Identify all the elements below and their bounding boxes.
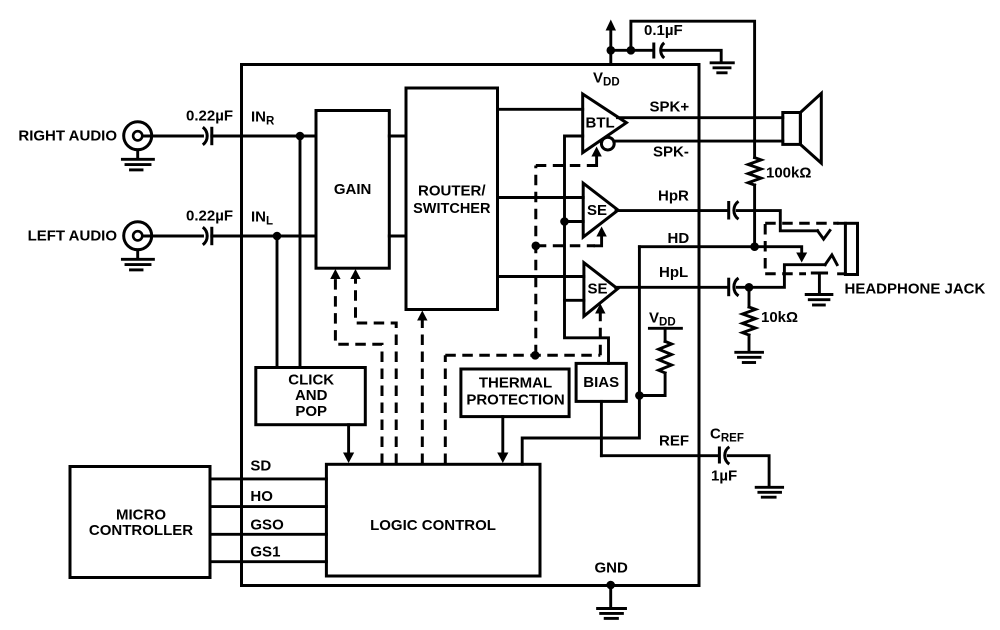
- svg-text:SWITCHER: SWITCHER: [413, 201, 491, 217]
- wire VDD node to 0.1uF cap: [611, 49, 653, 52]
- svg-text:POP: POP: [295, 403, 327, 420]
- svg-text:SPK-: SPK-: [653, 144, 689, 161]
- capacitor 0.22uF left: [203, 227, 212, 245]
- svg-text:100kΩ: 100kΩ: [766, 165, 811, 182]
- VDD rail bar: [649, 327, 681, 330]
- label CLICK AND POP: [288, 372, 334, 421]
- ground 0.1uF: [711, 63, 733, 73]
- wire HpR: [616, 209, 727, 212]
- svg-text:GSO: GSO: [250, 517, 284, 534]
- resistor R1 100k: [748, 158, 761, 185]
- op-amp U1 BTL: [583, 94, 627, 153]
- wire 100k to HD node: [753, 185, 756, 247]
- ground right RCA: [122, 150, 153, 170]
- svg-text:HO: HO: [250, 488, 273, 505]
- svg-text:0.22µF: 0.22µF: [186, 108, 233, 125]
- jack tip contact: [818, 231, 830, 240]
- jack body tick top: [839, 222, 846, 225]
- svg-text:SE: SE: [587, 202, 607, 219]
- ground GND: [598, 609, 626, 619]
- dashed mute horizontal: [445, 354, 600, 357]
- op-amp U2 SE1: [583, 183, 618, 237]
- svg-text:BTL: BTL: [586, 115, 615, 132]
- wire mute BTL arrow: [590, 147, 602, 166]
- svg-text:SE: SE: [588, 281, 608, 298]
- svg-text:SPK+: SPK+: [650, 99, 690, 116]
- dashed mute line from LOGIC: [444, 355, 447, 464]
- node INR: [296, 132, 305, 141]
- wire left RCA to cap: [143, 235, 203, 238]
- wire bias stub SE1: [565, 220, 584, 223]
- svg-text:LOGIC CONTROL: LOGIC CONTROL: [370, 517, 496, 534]
- node mute SE1 branch: [532, 242, 541, 251]
- block GAIN: [316, 111, 389, 269]
- wire CLICK AND POP to LOGIC arrow: [343, 425, 354, 463]
- dashed mute to SE2 arrow: [595, 304, 605, 356]
- node bias SE1: [560, 217, 569, 226]
- capacitor C1 0.1uF: [654, 43, 664, 59]
- wire THERMAL to LOGIC arrow: [497, 417, 508, 463]
- wire HpL cap to jack ring contact: [737, 265, 825, 288]
- svg-text:ROUTER/: ROUTER/: [418, 183, 486, 200]
- ground 10k: [736, 352, 763, 362]
- svg-text:CLICK: CLICK: [288, 372, 334, 389]
- svg-text:HpL: HpL: [659, 264, 688, 281]
- wire GAIN to ROUTER L: [389, 235, 406, 238]
- wire ROUTER to SE1: [498, 196, 584, 199]
- wire BIAS feed to amps: [565, 136, 609, 363]
- wire BIAS to REF: [600, 401, 603, 455]
- wire GAIN to ROUTER R: [389, 135, 406, 138]
- jack sleeve contact bar: [812, 272, 826, 275]
- svg-text:1µF: 1µF: [711, 468, 737, 485]
- wire HD node to jack detect arrow: [755, 247, 808, 263]
- wire CREF to ground: [728, 456, 769, 486]
- svg-text:MICRO: MICRO: [116, 507, 166, 524]
- svg-text:PROTECTION: PROTECTION: [466, 392, 564, 409]
- wire 0.1uF to ground: [663, 50, 721, 61]
- wire ROUTER to SE2: [498, 275, 584, 278]
- wire HD: [639, 245, 754, 248]
- node HpL 10k: [745, 283, 754, 292]
- svg-text:HpR: HpR: [658, 188, 689, 205]
- svg-text:AND: AND: [295, 387, 328, 404]
- power symbol VDD top arrow: [606, 20, 616, 65]
- jack sleeve ground stem: [818, 273, 821, 293]
- block BIAS: [576, 363, 626, 401]
- wire 10k to ground: [748, 335, 751, 351]
- ground headphone jack: [806, 295, 832, 306]
- wire GS1: [210, 560, 326, 563]
- dashed router control: [417, 311, 427, 465]
- svg-text:BIAS: BIAS: [583, 374, 619, 391]
- svg-text:0.1µF: 0.1µF: [644, 22, 683, 39]
- node 0.1uF branch: [627, 46, 636, 55]
- wire ROUTER to BTL: [498, 108, 583, 111]
- svg-text:CONTROLLER: CONTROLLER: [89, 522, 193, 539]
- node mute horizontal: [531, 351, 540, 360]
- svg-text:RIGHT AUDIO: RIGHT AUDIO: [18, 128, 117, 145]
- svg-text:GAIN: GAIN: [334, 181, 372, 198]
- capacitor 0.22uF right: [203, 127, 212, 145]
- svg-text:REF: REF: [659, 433, 689, 450]
- wire INL: [212, 235, 316, 238]
- wire resistor to HD node: [639, 373, 665, 396]
- headphone jack dashed outline bottom: [765, 272, 806, 275]
- dashed gain control 1: [330, 269, 382, 464]
- label THERMAL PROTECTION: [466, 375, 564, 409]
- jack body tick bottom: [839, 272, 846, 275]
- wire right RCA to cap: [143, 135, 203, 138]
- svg-text:10kΩ: 10kΩ: [761, 309, 798, 326]
- svg-text:THERMAL: THERMAL: [479, 375, 552, 392]
- wire HpL: [616, 286, 728, 289]
- ground CREF: [756, 487, 782, 497]
- RCA jack left audio: [124, 222, 152, 250]
- inversion bubble BTL: [601, 137, 614, 150]
- dashed mute vertical branch: [534, 166, 537, 356]
- speaker: [783, 93, 822, 163]
- node HD junction: [750, 242, 759, 251]
- wire REF: [601, 454, 718, 457]
- svg-text:HD: HD: [668, 230, 690, 247]
- wire INR node to CLICK AND POP: [299, 136, 302, 368]
- resistor R2 10k: [743, 307, 756, 335]
- ground left RCA: [122, 250, 153, 270]
- dashed gain control 2: [350, 269, 396, 464]
- block ROUTER/SWITCHER: [406, 88, 498, 310]
- RCA jack right audio: [124, 122, 152, 150]
- svg-text:HEADPHONE JACK: HEADPHONE JACK: [845, 281, 986, 298]
- svg-text:SD: SD: [250, 458, 271, 475]
- node GND: [606, 581, 615, 590]
- wire mute SE1 arrow: [595, 227, 607, 246]
- wire VDD rail to resistor: [664, 328, 667, 341]
- node INL: [273, 232, 282, 241]
- wire GND stem: [609, 585, 612, 607]
- block THERMAL PROTECTION: [461, 369, 569, 417]
- wire bias stub SE2: [565, 299, 584, 302]
- wire HpR cap to jack tip contact: [737, 211, 817, 231]
- wire SPK+: [618, 116, 783, 119]
- jack body: [845, 223, 857, 274]
- label ROUTER/SWITCHER: [413, 183, 491, 217]
- wire SD: [210, 477, 326, 480]
- wire SPK-: [614, 140, 783, 143]
- wire INL node to CLICK AND POP: [276, 236, 279, 368]
- headphone jack dashed outline left: [764, 224, 767, 274]
- capacitor HpL coupling: [729, 278, 739, 297]
- wire INR: [212, 135, 316, 138]
- svg-text:0.22µF: 0.22µF: [186, 208, 233, 225]
- capacitor HpR coupling: [729, 201, 739, 220]
- op-amp U3 SE2: [584, 263, 618, 317]
- dashed mute to BTL: [536, 164, 590, 167]
- wire GSO: [210, 533, 326, 536]
- wire HpL node to 10k: [748, 287, 751, 307]
- IC boundary box: [242, 65, 700, 586]
- wire VDD loop top to 100k: [631, 21, 755, 157]
- svg-text:GS1: GS1: [250, 544, 280, 561]
- headphone jack dashed outline top: [765, 222, 838, 225]
- capacitor CREF: [719, 447, 729, 465]
- wire HO: [210, 505, 326, 508]
- wire HD net from LOGIC: [522, 247, 639, 465]
- label MICRO CONTROLLER: [89, 507, 193, 540]
- block CLICK AND POP: [256, 368, 365, 425]
- node HD pullup: [635, 391, 644, 400]
- block MICRO CONTROLLER: [70, 467, 210, 578]
- node VDD stem: [607, 46, 616, 55]
- block LOGIC CONTROL: [326, 464, 540, 576]
- resistor R3 VDD pullup: [659, 341, 672, 372]
- jack ring contact: [825, 255, 837, 265]
- svg-text:GND: GND: [595, 560, 629, 577]
- svg-text:LEFT AUDIO: LEFT AUDIO: [28, 228, 118, 245]
- dashed mute to SE1: [536, 244, 595, 247]
